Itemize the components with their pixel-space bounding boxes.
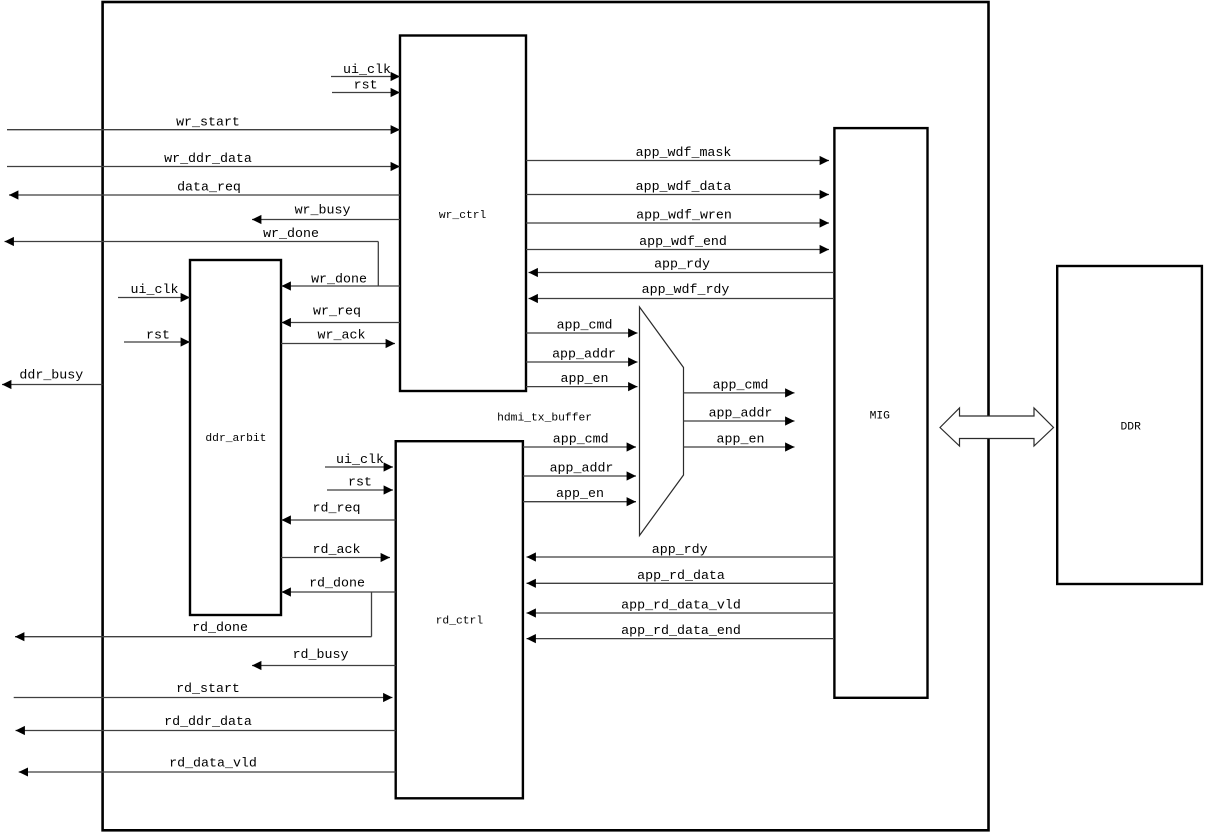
svg-text:app_addr: app_addr [552, 347, 616, 362]
app_rd_data wire [527, 582, 835, 584]
rst rd_ctrl wire [327, 489, 393, 491]
block wr_ctrl [400, 36, 526, 392]
svg-text:rd_ddr_data: rd_ddr_data [164, 714, 252, 729]
block DDR [1057, 266, 1202, 584]
svg-text:MIG: MIG [870, 411, 891, 423]
svg-text:hdmi_tx_buffer: hdmi_tx_buffer [497, 413, 592, 425]
app_wdf_rdy wire [529, 298, 835, 300]
rd_req wire [282, 519, 396, 521]
app_rdy rd wire [527, 556, 835, 558]
rd_done wire to external [15, 636, 372, 638]
svg-text:app_rd_data: app_rd_data [637, 568, 725, 583]
svg-text:rd_data_vld: rd_data_vld [169, 756, 257, 771]
svg-text:wr_ctrl: wr_ctrl [439, 210, 487, 222]
wr_done wire to ddr_arbit [282, 285, 401, 287]
svg-text:ddr_arbit: ddr_arbit [205, 433, 266, 445]
wr_done branch vertical [377, 242, 379, 287]
app_rd_data_end wire [527, 638, 835, 640]
svg-text:app_rd_data_vld: app_rd_data_vld [621, 598, 741, 613]
svg-text:app_rdy: app_rdy [654, 257, 710, 272]
svg-text:rst: rst [354, 78, 378, 93]
app_cmd mux wire [684, 392, 795, 394]
ui_clk rd_ctrl wire [325, 466, 393, 468]
app_rd_data_vld wire [527, 612, 835, 614]
app_en rd wire [523, 501, 636, 503]
svg-text:app_addr: app_addr [550, 461, 614, 476]
svg-text:rd_busy: rd_busy [293, 647, 349, 662]
svg-text:rst: rst [348, 475, 372, 490]
app_cmd rd wire [523, 446, 636, 448]
app_wdf_data wire [526, 194, 829, 196]
wr_start wire [7, 129, 400, 131]
app_en mux wire [684, 446, 795, 448]
svg-text:app_cmd: app_cmd [553, 432, 609, 447]
data_req wire [9, 194, 400, 196]
block ddr_arbit [190, 260, 281, 615]
rd_busy wire [252, 665, 396, 667]
app_addr mux wire [684, 420, 795, 422]
svg-text:app_wdf_mask: app_wdf_mask [636, 145, 732, 160]
wr_ddr_data wire [7, 166, 400, 168]
app_wdf_end wire [526, 249, 829, 251]
svg-text:wr_ddr_data: wr_ddr_data [164, 151, 252, 166]
mux app command selector [640, 307, 684, 536]
rst ddr_arbit wire [124, 341, 190, 343]
svg-text:wr_start: wr_start [176, 115, 240, 130]
app_en wr wire [526, 386, 638, 388]
ddr_busy wire [2, 384, 103, 386]
svg-text:ui_clk: ui_clk [343, 62, 391, 77]
svg-text:ui_clk: ui_clk [336, 452, 384, 467]
svg-text:DDR: DDR [1121, 422, 1142, 434]
ui_clk ddr_arbit wire [118, 297, 190, 299]
app_addr rd wire [523, 475, 636, 477]
rst wr_ctrl wire [332, 92, 400, 94]
svg-text:wr_busy: wr_busy [295, 203, 351, 218]
svg-text:ddr_busy: ddr_busy [19, 367, 83, 382]
svg-text:app_wdf_end: app_wdf_end [639, 234, 727, 249]
svg-text:app_en: app_en [556, 486, 604, 501]
svg-text:app_wdf_wren: app_wdf_wren [636, 208, 732, 223]
wr_busy wire [252, 219, 400, 221]
rd_start wire [14, 697, 393, 699]
svg-text:rd_req: rd_req [313, 501, 361, 516]
svg-text:wr_ack: wr_ack [318, 328, 366, 343]
svg-text:app_rd_data_end: app_rd_data_end [621, 623, 741, 638]
app_addr wr wire [526, 361, 638, 363]
svg-text:app_cmd: app_cmd [557, 318, 613, 333]
block rd_ctrl [396, 441, 523, 798]
svg-text:rd_done: rd_done [192, 620, 248, 635]
svg-text:ui_clk: ui_clk [131, 282, 179, 297]
block MIG [834, 128, 927, 698]
svg-text:app_addr: app_addr [709, 406, 773, 421]
svg-text:app_en: app_en [717, 432, 765, 447]
svg-text:app_en: app_en [561, 371, 609, 386]
module hdmi_tx_buffer boundary [103, 2, 989, 830]
app_wdf_mask wire [526, 160, 829, 162]
svg-text:wr_done: wr_done [263, 226, 319, 241]
ui_clk wr_ctrl wire [331, 76, 400, 78]
svg-text:wr_req: wr_req [313, 304, 361, 319]
svg-text:app_wdf_rdy: app_wdf_rdy [642, 282, 730, 297]
svg-text:rd_done: rd_done [309, 576, 365, 591]
wr_ack wire [281, 343, 395, 345]
rd_data_vld wire [19, 771, 396, 773]
svg-text:rd_ack: rd_ack [313, 542, 361, 557]
svg-text:rst: rst [146, 328, 170, 343]
svg-text:rd_start: rd_start [176, 681, 240, 696]
app_rdy wr wire [529, 272, 835, 274]
rd_done wire to ddr_arbit [282, 591, 396, 593]
app_wdf_wren wire [526, 222, 829, 224]
bidirectional bus arrow MIG-DDR [940, 408, 1054, 446]
rd_ddr_data wire [16, 730, 396, 732]
svg-text:rd_ctrl: rd_ctrl [436, 616, 484, 628]
rd_done branch vertical [371, 592, 373, 637]
wr_done wire to external [5, 241, 379, 243]
app_cmd wr wire [526, 332, 638, 334]
svg-text:app_rdy: app_rdy [652, 542, 708, 557]
wr_req wire [282, 322, 401, 324]
svg-text:wr_done: wr_done [311, 272, 367, 287]
svg-text:app_cmd: app_cmd [713, 378, 769, 393]
rd_ack wire [281, 557, 390, 559]
svg-text:data_req: data_req [177, 180, 241, 195]
svg-text:app_wdf_data: app_wdf_data [636, 179, 732, 194]
